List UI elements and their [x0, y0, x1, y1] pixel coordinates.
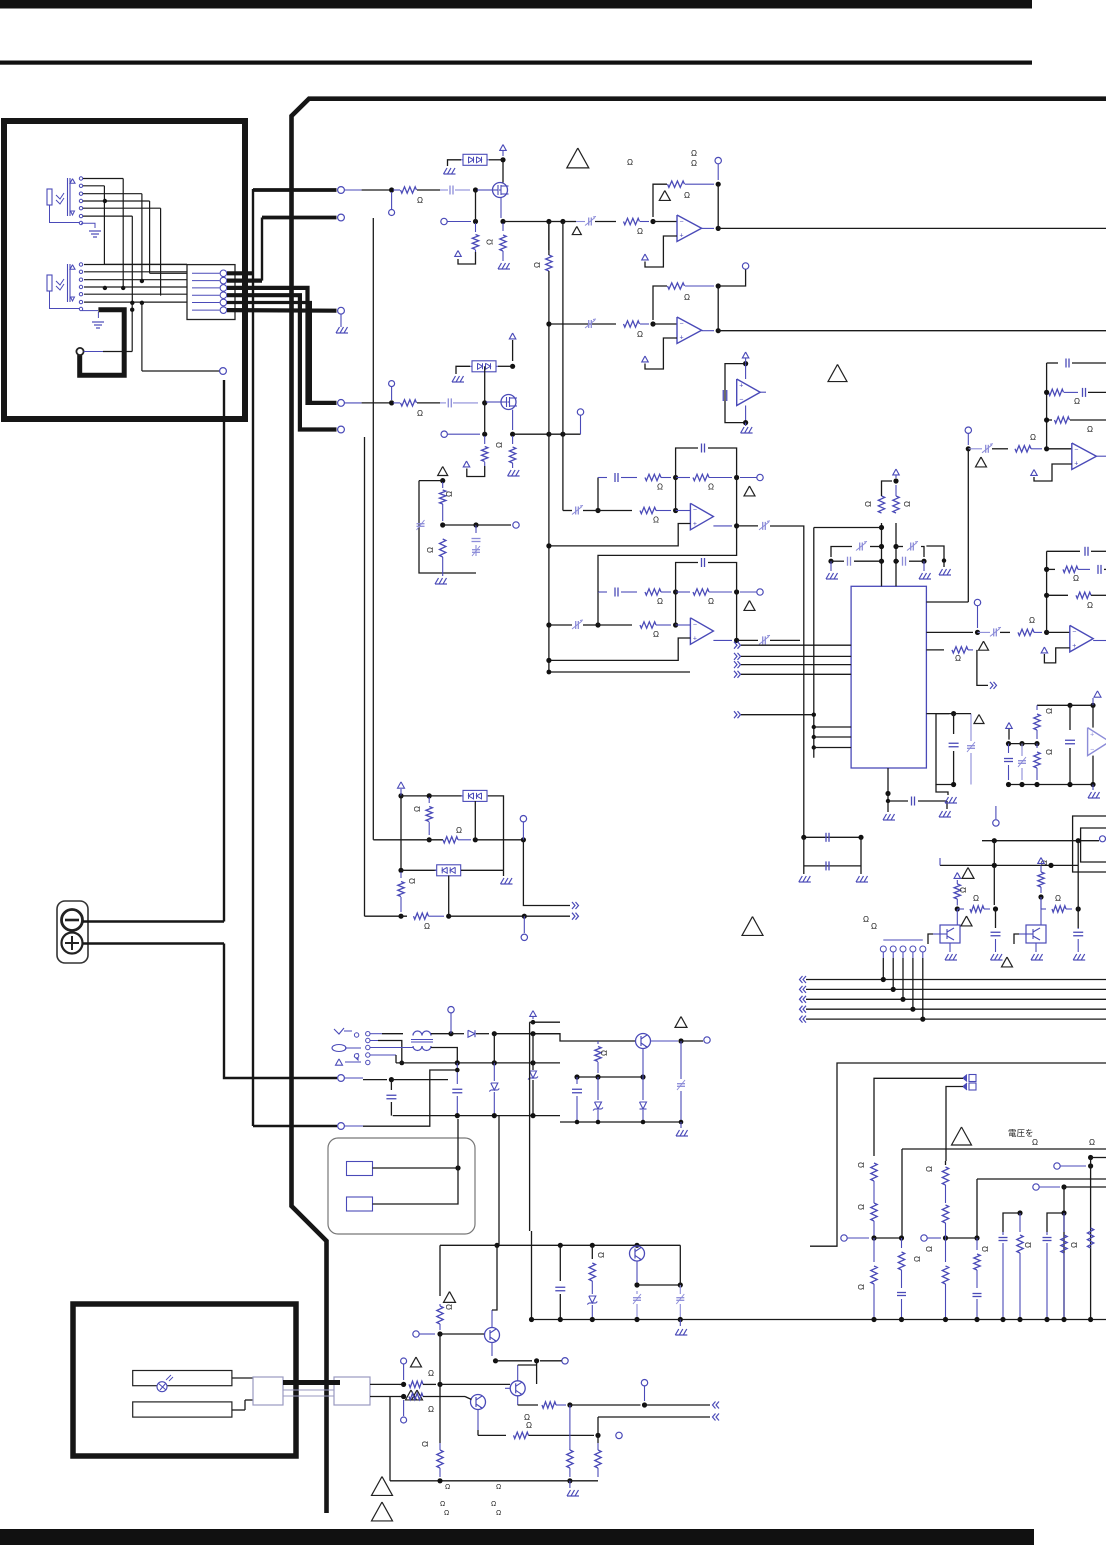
- biquad couple wire: [598, 526, 737, 592]
- battery plus symbol: [62, 933, 83, 954]
- junction harness d4: [140, 279, 144, 283]
- IR emitter bar 1: [133, 1371, 232, 1386]
- c16 right vert: [1077, 865, 1079, 928]
- node p2: [492, 1031, 497, 1036]
- stage B input lead: [345, 402, 362, 404]
- main ground bus: [532, 1319, 1106, 1321]
- node c11a: [1067, 703, 1072, 708]
- c18 out terminal: [704, 1037, 710, 1043]
- p row 1033: [494, 1033, 560, 1035]
- corner box outer: [1073, 816, 1106, 872]
- IR emitter bar 2: [133, 1402, 232, 1417]
- svg-text:Ω: Ω: [445, 491, 454, 497]
- c12 cap1: [953, 714, 955, 734]
- c24 row 1149: [902, 1148, 1106, 1150]
- row d8 right: [449, 915, 525, 917]
- node p9: [492, 1113, 497, 1118]
- junction harness d3: [103, 286, 107, 290]
- cable run: pin6 ground wire: [227, 308, 337, 313]
- phone jack J1 contact pins: [79, 177, 82, 180]
- rect diode D20: [451, 1033, 464, 1035]
- biquad F2 out terminal: [757, 589, 763, 595]
- Q16 emitter row: [517, 1396, 519, 1405]
- phone jack J2 frame: [67, 264, 69, 302]
- c21 terminal4: [401, 1417, 407, 1423]
- svg-text:Ω: Ω: [913, 1256, 922, 1262]
- c12 capA: [967, 745, 975, 747]
- c24 pair1 cap: [999, 1237, 1008, 1239]
- small tri s3: [572, 226, 581, 234]
- stage4 input R: [624, 321, 640, 327]
- d terminal down: [523, 916, 525, 933]
- node q4: [634, 1243, 639, 1248]
- c10 R: [1018, 629, 1034, 635]
- node bus: [634, 1317, 639, 1322]
- svg-text:−: −: [1074, 446, 1078, 453]
- transistor Q13: [630, 1246, 645, 1261]
- U5 ground: [745, 423, 747, 426]
- biquad2 input from bus: [546, 622, 551, 627]
- cluster7 input sym: [985, 445, 987, 453]
- ref arrow B: [463, 461, 470, 467]
- c23 capA2: [676, 1297, 684, 1299]
- jack wiring harness: [83, 178, 123, 180]
- node c11 bottom: [1067, 782, 1072, 787]
- bus line 1: [803, 976, 806, 983]
- node d2: [427, 793, 432, 798]
- c21 vert x440 lower: [439, 1334, 441, 1443]
- c21 R2: [409, 1381, 423, 1387]
- U5 frame: [725, 364, 746, 423]
- ic row 527: [814, 527, 882, 529]
- node bus: [590, 1317, 595, 1322]
- resistor R-d4: [414, 913, 429, 919]
- phone jack J2 contact pins: [79, 263, 82, 266]
- p row 1062: [396, 1062, 560, 1064]
- jack J2 ground symbol: [82, 310, 98, 312]
- cluster7 ref arrow: [1031, 470, 1038, 476]
- c24 R x1090: [1087, 1228, 1093, 1248]
- c24 R x901 low: [901, 1238, 903, 1248]
- gnd icg2: [946, 801, 948, 809]
- c10 ref arrow: [1041, 647, 1048, 653]
- signal bus 1: [548, 222, 550, 256]
- node S4O: [716, 328, 721, 333]
- biquad F2 tri: [744, 601, 755, 611]
- c23 wire q5: [637, 1284, 680, 1286]
- d terminal up: [522, 822, 524, 840]
- svg-text:Ω: Ω: [1089, 1138, 1095, 1147]
- svg-text:Ω: Ω: [444, 1510, 449, 1517]
- cable run: trunk to lower terminal: [253, 1125, 337, 1127]
- p arrow: [530, 1011, 537, 1017]
- supply arrow A: [500, 145, 507, 151]
- stage4 aux terminal: [577, 409, 583, 415]
- svg-text:Ω: Ω: [627, 158, 633, 167]
- c11 top row: [1037, 704, 1070, 706]
- U3 plus return: [645, 236, 677, 267]
- node bus2: [871, 1317, 876, 1322]
- node ic0: [893, 478, 898, 483]
- biquad F1 row1 R2: [676, 477, 690, 479]
- c21 top wire: [440, 1244, 497, 1246]
- link B2-B3: [484, 366, 486, 403]
- standby relay block 1: [347, 1162, 373, 1176]
- c10 fb row2: [1047, 568, 1055, 570]
- biquad F1 link r1-i2: [675, 478, 677, 511]
- stage A out row: [503, 221, 549, 223]
- T1 sec lead2: [431, 1048, 457, 1063]
- harness vertical w5: [160, 208, 162, 295]
- node B8: [440, 478, 445, 483]
- B1 tap lead: [391, 387, 393, 400]
- box2 right + gnd: [461, 869, 504, 871]
- ground lug terminal: [76, 348, 83, 355]
- biquad F1 row1 cap: [598, 477, 607, 479]
- node c16f: [993, 906, 998, 911]
- node f0: [1088, 1155, 1093, 1160]
- svg-text:Ω: Ω: [424, 922, 430, 931]
- c16 cap1 gnd: [991, 954, 995, 960]
- phone jack J1 ring contact: [56, 198, 64, 204]
- harness vertical w2: [122, 179, 124, 288]
- aux terminal inside box: [220, 368, 227, 375]
- node bus: [529, 1317, 534, 1322]
- node p1: [448, 1031, 453, 1036]
- pw contact pins c: [354, 1054, 358, 1058]
- node d6: [398, 868, 403, 873]
- svg-text:Ω: Ω: [428, 1369, 434, 1378]
- c24 R chain x945: [945, 1161, 947, 1165]
- d link: [400, 789, 402, 796]
- row to stage3: [563, 221, 576, 223]
- input jack block border: [4, 121, 245, 419]
- resistor R-A4: [475, 223, 477, 232]
- wire B2-QB1: [486, 401, 501, 403]
- c13 gnd2: [856, 876, 860, 882]
- biquad F2 row1 R2: [676, 591, 690, 593]
- c10 tri: [979, 641, 989, 650]
- d5 drop + chev: [523, 840, 570, 906]
- node B2: [482, 400, 487, 405]
- A1 tap lead: [391, 192, 393, 209]
- c16 sup arrow1: [954, 873, 961, 879]
- c23 vert x499: [498, 1116, 500, 1246]
- svg-text:−: −: [680, 320, 684, 327]
- node c16h: [1076, 906, 1081, 911]
- Q15 emitter: [477, 1410, 479, 1431]
- phone jack J2 ring contact: [56, 284, 64, 290]
- node c16c: [992, 863, 997, 868]
- svg-text:Ω: Ω: [653, 630, 659, 639]
- c24 vert x1090: [1090, 1158, 1092, 1320]
- QB1 drain wire up: [512, 340, 514, 361]
- node d7: [398, 914, 403, 919]
- cable run: vertical trunk x253: [252, 189, 254, 1126]
- svg-text:+: +: [1090, 732, 1094, 739]
- warning triangle W4: [952, 1127, 972, 1145]
- c13 top row: [804, 836, 861, 838]
- c10 fb vertical: [1046, 551, 1048, 632]
- svg-text:Ω: Ω: [426, 547, 435, 553]
- pw contact leads: [345, 1047, 361, 1049]
- c16 R4 row: [1040, 897, 1042, 909]
- node e2: [595, 1074, 600, 1079]
- node c18 bottom: [679, 1120, 684, 1125]
- transformer T1 secondary: [413, 1046, 422, 1051]
- c24 pair1 R: [1019, 1213, 1021, 1232]
- node B6: [560, 432, 565, 437]
- svg-text:Ω: Ω: [1070, 1242, 1079, 1248]
- terminal feed: [345, 1077, 364, 1079]
- p7 row right: [391, 1079, 448, 1081]
- node bus2: [1017, 1317, 1022, 1322]
- svg-text:Ω: Ω: [1087, 425, 1093, 434]
- c21 row 1405: [570, 1404, 641, 1406]
- svg-text:Ω: Ω: [1045, 749, 1054, 755]
- biquad F1 node out: [734, 523, 739, 528]
- FET Q-B1: [501, 395, 516, 410]
- svg-text:電圧を: 電圧を: [1008, 1128, 1034, 1138]
- svg-text:Ω: Ω: [1045, 708, 1054, 714]
- svg-text:Ω: Ω: [445, 1484, 450, 1491]
- p cap mid: [456, 1063, 458, 1084]
- connector CN1 pin 2: [192, 280, 220, 282]
- pw contact pins a: [354, 1033, 358, 1037]
- c23 capA1: [633, 1297, 641, 1299]
- svg-text:−: −: [739, 397, 743, 404]
- node c11 bottom: [1034, 782, 1039, 787]
- node f1: [1088, 1163, 1093, 1168]
- c16 mid vert: [993, 865, 995, 905]
- c24 vert x1064: [1063, 1187, 1065, 1320]
- c21 in terminal: [413, 1331, 419, 1337]
- IC U10 body: [851, 586, 926, 768]
- cluster7 tri: [976, 457, 987, 467]
- svg-text:Ω: Ω: [959, 887, 968, 893]
- node p4: [455, 1060, 460, 1065]
- U4 plus return: [645, 338, 677, 369]
- c18 R1: [597, 1041, 599, 1044]
- biquad F2 row1 cap: [598, 591, 607, 593]
- node S3F: [716, 182, 721, 187]
- c16 cap2 gnd: [1073, 954, 1077, 960]
- transistor Q12: [636, 1034, 651, 1049]
- node c11b: [1090, 703, 1095, 708]
- c21 row 1417: [598, 1416, 710, 1418]
- biquad2 out route: [770, 639, 800, 641]
- svg-text:Ω: Ω: [1029, 616, 1035, 625]
- biquad F2 in link: [583, 624, 598, 626]
- c21 vert x440: [439, 1245, 441, 1296]
- biquad F2 opamp: [676, 624, 690, 626]
- R-A2 ground: [498, 263, 502, 269]
- IC bottom lead: [887, 768, 889, 794]
- wire B9-B10: [443, 524, 476, 526]
- connector CN1 pin 6: [192, 309, 220, 311]
- biquad F1 out sym: [737, 525, 758, 527]
- node icb1: [812, 725, 816, 729]
- c24 terminal2: [1033, 1184, 1039, 1190]
- c21 R1: [437, 1306, 443, 1324]
- bottom page bar: [0, 1529, 1034, 1545]
- c24 terminal4: [921, 1235, 927, 1241]
- c11 R2: [1036, 744, 1038, 748]
- svg-text:Ω: Ω: [491, 1501, 496, 1508]
- pw tri c: [336, 1059, 343, 1065]
- junction harness d5: [130, 301, 134, 305]
- tri c21c: [406, 1390, 417, 1400]
- svg-text:Ω: Ω: [708, 597, 714, 606]
- node c12a: [951, 711, 956, 716]
- c18 capA: [677, 1083, 685, 1085]
- biquad F2 plus wire: [549, 638, 691, 660]
- node icd6: [921, 559, 926, 564]
- Q14 collector lead2: [569, 1405, 571, 1450]
- c11 cap2: [1018, 760, 1026, 762]
- U3 output lead: [702, 227, 714, 229]
- node S4F: [716, 283, 721, 288]
- c24 R x977 low: [976, 1238, 978, 1250]
- node bus2: [974, 1317, 979, 1322]
- node d8: [446, 914, 451, 919]
- harness vertical w1: [103, 186, 105, 265]
- cable run: vertical x262: [261, 218, 263, 281]
- c11 sup link: [1092, 698, 1094, 705]
- node A7: [473, 219, 478, 224]
- QB1 source lead: [512, 410, 514, 430]
- node ic1: [879, 525, 884, 530]
- c11 supply arrow: [1094, 691, 1101, 697]
- node c7i2: [1044, 446, 1049, 451]
- pw contact pins b: [366, 1045, 370, 1049]
- stage3 fb terminal: [715, 157, 721, 163]
- c10 input sym: [993, 628, 995, 636]
- svg-text:+: +: [680, 233, 684, 240]
- p row 1022: [530, 1021, 560, 1023]
- stage4 fb vertical: [717, 286, 719, 331]
- svg-text:+: +: [739, 382, 743, 389]
- row d4 right: [475, 839, 523, 841]
- node c11 bottom: [1019, 782, 1024, 787]
- c10 terminal: [974, 599, 980, 605]
- transistor Q11 box: [1026, 925, 1046, 943]
- junction harness d6: [140, 301, 144, 305]
- node c16b: [1076, 838, 1081, 843]
- U5 out stub: [760, 391, 766, 393]
- svg-text:Ω: Ω: [925, 1166, 934, 1172]
- node B3: [510, 364, 515, 369]
- biquad F1 node r2: [734, 475, 739, 480]
- box1 tap: [474, 801, 476, 840]
- node p8: [455, 1113, 460, 1118]
- c21 R7: [437, 1450, 443, 1468]
- node B5: [546, 432, 551, 437]
- warning tri c16c: [1002, 957, 1013, 967]
- svg-text:Ω: Ω: [871, 922, 877, 931]
- node c16g: [1038, 894, 1043, 899]
- node d3: [427, 837, 432, 842]
- node c11c: [1006, 741, 1011, 746]
- c16 top terminal: [1100, 836, 1106, 842]
- opamp U4: [653, 323, 677, 325]
- c24 inject sym1: [969, 1075, 976, 1082]
- Q13 bottom lead: [636, 1261, 638, 1285]
- phone jack J2 tip contact: [56, 279, 64, 285]
- connector CN1 pin 4: [192, 294, 220, 296]
- bus gnd: [679, 1320, 681, 1327]
- pw wire4: [370, 1054, 396, 1056]
- svg-text:Ω: Ω: [637, 330, 643, 339]
- stage A input lead: [345, 189, 362, 191]
- filter ground: [442, 573, 444, 576]
- biquad F1 out lead: [713, 525, 732, 527]
- node c11 bottom: [1006, 782, 1011, 787]
- svg-text:Ω: Ω: [445, 1304, 454, 1310]
- node B1: [389, 400, 394, 405]
- node bus: [678, 1317, 683, 1322]
- pw arrow: [354, 1053, 358, 1060]
- phone jack J2 sleeve: [47, 275, 52, 291]
- standby wire 2: [373, 1168, 459, 1204]
- node g3: [534, 1358, 539, 1363]
- svg-text:Ω: Ω: [863, 915, 869, 924]
- bias resistor R-B2: [512, 436, 514, 444]
- p terminal: [450, 1013, 452, 1034]
- stage3 input R: [624, 218, 640, 224]
- top title bar: [0, 0, 1032, 9]
- biquad F1 riser: [597, 478, 599, 511]
- node bus: [558, 1317, 563, 1322]
- jack2 wires: [84, 264, 187, 266]
- IC left bundle: [813, 528, 815, 758]
- gnd dec right: [923, 561, 925, 571]
- stage3 input sym: [588, 218, 590, 226]
- c13 cap1: [825, 833, 827, 842]
- header link wire: [883, 939, 923, 941]
- Q11 base: [1040, 897, 1042, 925]
- bus drop 3: [902, 958, 904, 999]
- biquad F1 input sym: [575, 507, 577, 515]
- row to bus2: [549, 221, 563, 223]
- pw wire2: [370, 1040, 378, 1042]
- node q6: [678, 1282, 683, 1287]
- node A6: [560, 219, 565, 224]
- connector CN1 body: [187, 265, 235, 320]
- c24 R chain x874: [871, 1163, 877, 1181]
- node c18 bottom: [596, 1120, 601, 1125]
- wire B10 right: [476, 524, 511, 526]
- p cap left: [390, 1080, 392, 1090]
- svg-text:Ω: Ω: [657, 597, 663, 606]
- c18 top row: [533, 1034, 636, 1041]
- node g7: [567, 1402, 572, 1407]
- node e4: [640, 1074, 645, 1079]
- node g10: [567, 1478, 572, 1483]
- svg-text:Ω: Ω: [1055, 894, 1061, 903]
- svg-text:Ω: Ω: [691, 159, 697, 168]
- c13 gnd1: [799, 876, 803, 882]
- node c16a: [992, 838, 997, 843]
- c18 out row: [681, 1040, 703, 1042]
- c24 inject wire1: [874, 1078, 963, 1156]
- Q14 emitter: [491, 1343, 493, 1357]
- biquad F1 tri: [744, 486, 755, 496]
- c16 R1: [954, 884, 960, 899]
- D-A1 right link: [489, 159, 503, 161]
- Q14 base wire: [440, 1333, 484, 1335]
- phone jack J1 frame: [67, 178, 69, 216]
